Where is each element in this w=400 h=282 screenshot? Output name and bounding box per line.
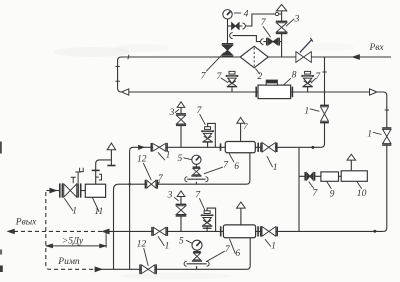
label 5 leader: [184, 158, 192, 160]
node: flow tick on right outlet riser: [385, 109, 389, 111]
label 7: [261, 17, 267, 28]
label 1 leader: [310, 109, 320, 112]
svg-text:>5Ду: >5Ду: [62, 236, 84, 246]
node: junction tick on inlet header: [127, 55, 130, 60]
wire: riser x=324.5 from inlet header to valve: [324, 57, 326, 105]
instrument box 10: [341, 171, 367, 182]
regulator 6 left flange: [220, 143, 222, 151]
node: junction dot middle line: [311, 146, 314, 149]
label 12: [137, 153, 147, 164]
decorative: [114, 44, 170, 52]
valve 1 (line 1 inlet): [151, 143, 167, 152]
svg-text:6: 6: [235, 248, 240, 259]
label 1: [72, 206, 77, 217]
wire: riser x=299 middle line down to lower line: [298, 147, 300, 231]
wire: relief valve 3 outlet riser to inlet header: [281, 34, 283, 57]
regulator 6 (line 2) body: [223, 225, 255, 238]
valve 7 on relief pilot line: [267, 38, 279, 46]
three-way cock 7 (line 2): [192, 252, 202, 261]
arrow: Pvyh line end: [8, 229, 14, 233]
wire: Rimp line solid part to riser up to lower regulator 6: [95, 238, 251, 269]
node: flow tick on bypass drop (upper): [115, 65, 120, 67]
svg-text:12: 12: [137, 239, 147, 250]
label 6 leader: [230, 239, 236, 254]
decorative: [306, 43, 354, 51]
node: junction dot sub-line/vertical: [128, 183, 130, 185]
dimension arrow left: [46, 244, 52, 248]
vent triangle on regulator 6 (line 2): [237, 202, 246, 208]
label 1 leader: [265, 239, 271, 246]
slam-shut valve 1 body: [60, 183, 81, 197]
label 6 leader: [229, 153, 234, 162]
gas meter 8 counter head: [266, 80, 277, 85]
regulator 6 right flange a: [257, 226, 259, 236]
label Pvyh: [15, 217, 37, 227]
label 7 leader (gauge drop valve): [206, 53, 224, 71]
regulator 6 right flange b: [260, 143, 262, 152]
pressure gauge PI 4: [223, 10, 232, 19]
label 9: [330, 188, 335, 199]
lever tick: [310, 38, 312, 42]
label 1 leader: [158, 236, 164, 246]
safety relief 7 (left of meter): [226, 71, 239, 92]
label 1 leader: [373, 132, 382, 134]
wire: corner from middle line up into riser x=324.5: [321, 123, 325, 148]
valve 12 (line 2 impulse): [140, 264, 156, 274]
svg-text:Рвх: Рвх: [369, 43, 385, 53]
svg-text:12: 12: [137, 153, 147, 164]
label 3 leader: [175, 109, 179, 112]
svg-text:11: 11: [94, 206, 103, 217]
instrument box 9: [321, 172, 339, 181]
label >5Du: [62, 236, 84, 246]
label 8: [292, 69, 297, 80]
label 10: [357, 188, 367, 199]
wire: right outlet riser x=386.8 below valve to bottom corner: [383, 145, 387, 231]
label 7: [313, 188, 319, 199]
vent triangle on box 10: [347, 154, 356, 160]
wire: slam-shut/pilot feed line y=190.5: [46, 190, 59, 192]
svg-text:3: 3: [169, 107, 175, 118]
label 7: [225, 244, 231, 255]
purge valve 3 (line 1): [176, 114, 186, 125]
wire: vent line cap bar: [107, 165, 115, 167]
label 7: [217, 71, 223, 82]
arrow: inlet flow Pvx: [353, 55, 360, 60]
label 3 leader: [174, 197, 179, 201]
wire: middle regulator line y=147.3 with left corner down: [130, 147, 321, 151]
cock of gauge 4: [232, 23, 240, 30]
label 7: [158, 173, 164, 184]
svg-text:6: 6: [234, 161, 239, 172]
arrow: flow on middle line: [139, 145, 144, 149]
wire: gauge 5 stem (line 2): [196, 250, 198, 269]
arrow: Pvyh outgoing: [103, 229, 110, 234]
label 10 leader: [357, 182, 362, 189]
svg-text:4: 4: [244, 8, 249, 19]
fitting circle on vent line: [275, 12, 278, 15]
label 7 leader: [221, 78, 229, 83]
wire: pilot 11 vent riser with curve to vent line: [96, 160, 112, 184]
gauge manifold bracket (line 2): [184, 261, 209, 266]
svg-text:5: 5: [179, 236, 184, 247]
regulator 6 right flange a: [257, 143, 259, 152]
label 7 leader (near valve 12): [156, 182, 160, 186]
label 7: [315, 71, 321, 82]
label 5 leader: [186, 240, 193, 243]
filter 2 diamond: [240, 46, 268, 68]
label 6: [235, 248, 240, 259]
wire: pilot vent riser union bar: [92, 169, 100, 171]
wire: branch y=176.3 to instruments 9/10: [299, 175, 341, 177]
valve 7 on instrument branch: [305, 172, 314, 181]
slam-shut pin with cap (short): [71, 177, 76, 183]
decorative: [0, 266, 3, 273]
label 3: [169, 107, 175, 118]
safety relief 7 (line 2): [201, 211, 214, 232]
label 11: [94, 206, 103, 217]
vent of purge valve 3 (line 2): [177, 191, 185, 197]
svg-text:1: 1: [367, 128, 372, 139]
gauge manifold bracket (line 1): [185, 177, 208, 182]
three-way cock 7 (line 1): [191, 167, 201, 176]
wire: inlet header y=57 from Pvx with rounded corner down at left: [118, 57, 391, 92]
svg-text:1: 1: [72, 206, 77, 217]
decorative: [0, 250, 2, 255]
valve 12 (line 1 impulse): [145, 180, 157, 189]
gas meter 8 body: [258, 85, 291, 99]
valve 1 on right outlet riser: [382, 128, 391, 145]
wire: vent line x=111.4 with end cap: [110, 150, 112, 166]
label 11 leader: [92, 198, 99, 212]
label 3 leader: [286, 19, 294, 27]
wire: vent stem above relief valve 3: [281, 11, 283, 21]
label 1: [271, 240, 276, 251]
gas meter 8 right flange: [291, 87, 293, 98]
dimension line >5Du: [46, 245, 106, 247]
pilot 11 body: [85, 184, 105, 197]
label 7 leader: [199, 198, 205, 210]
vent to atmosphere (pilot): [107, 143, 115, 150]
svg-text:8: 8: [292, 69, 297, 80]
label 9 leader: [327, 182, 332, 189]
gas meter 8 left flange: [255, 87, 257, 98]
gas meter 8 counter head cap: [267, 80, 277, 83]
svg-text:1: 1: [166, 149, 171, 160]
safety relief valve 3: [276, 21, 287, 33]
label 7 leader (pilot valve): [263, 26, 271, 37]
label 7: [195, 189, 201, 200]
label 7 (reg vent): [243, 121, 248, 131]
pressure gauge 5 (line 1): [192, 155, 201, 164]
node: flow tick on riser x=324.5: [322, 71, 326, 73]
svg-text:1: 1: [304, 106, 309, 117]
arrow: Rimp flow: [95, 267, 102, 272]
arrow: flow into slam-shut valve: [50, 188, 56, 192]
wire: relief 7 bracket on line 1: [208, 123, 216, 147]
regulator 6 right flange b: [260, 226, 262, 236]
label 5: [179, 236, 184, 247]
svg-text:Рвых: Рвых: [15, 217, 37, 227]
slam-shut pin with cap (tall): [75, 172, 80, 183]
label 1: [367, 128, 372, 139]
label 12 leader: [143, 163, 151, 180]
label 7 leader: [200, 114, 206, 125]
label 7: [223, 160, 229, 171]
wire: vent riser on box 10: [350, 160, 352, 171]
arrow: open arrow right on metering line: [370, 89, 377, 95]
label 2: [257, 71, 262, 82]
wire: pilot feed between valve and pilot: [81, 190, 86, 192]
wire: lower outlet line y=231.4 (solid part): [109, 230, 383, 232]
label 2 leader: [255, 69, 260, 75]
wire: relief 7 bracket on line 2: [207, 208, 216, 231]
decorative: [120, 273, 230, 280]
vent to atmosphere above relief 3: [276, 4, 286, 10]
svg-text:2: 2: [257, 71, 262, 82]
node: flow tick on bypass drop (lower): [115, 80, 120, 82]
decorative: [0, 142, 2, 154]
wire: gauge line to relief vent riser: [239, 14, 282, 26]
shut-off valve 7 on gauge drop: [222, 44, 233, 57]
main valve with lever: [296, 52, 311, 63]
wire: vent riser on regulator 6 (line 2): [240, 208, 242, 225]
fitting on relief pilot line (left): [230, 33, 233, 39]
svg-text:5: 5: [178, 153, 183, 164]
regulator 6 left flange: [220, 226, 222, 236]
label 1: [273, 162, 278, 173]
vent of purge valve 3 (line 1): [177, 102, 185, 108]
safety relief 7 (right of meter): [301, 71, 314, 92]
svg-text:1: 1: [165, 240, 170, 251]
label 1: [166, 149, 171, 160]
wire: purge valve 3 stems (line 2): [180, 196, 182, 231]
safety relief 7 (line 1): [201, 127, 214, 148]
label 3: [294, 13, 300, 24]
svg-text:10: 10: [357, 188, 367, 199]
wire: gauge drop line x=227.5: [227, 19, 229, 44]
label 1 leader: [64, 198, 73, 211]
label 1: [304, 106, 309, 117]
label 12 leader (line 2): [144, 248, 149, 266]
wire: pilot line of relief valve with jog: [233, 36, 282, 42]
svg-text:7: 7: [243, 121, 248, 131]
svg-text:Римп: Римп: [57, 257, 80, 267]
wire: gauge branch stub: [228, 25, 232, 27]
label 1: [165, 240, 170, 251]
svg-text:9: 9: [330, 188, 335, 199]
wire: impulse vertical x=113.5 curving into sub-line y=184.2: [114, 184, 119, 269]
label 7 leader (gauge cock): [204, 167, 223, 174]
valve 1 on riser x=324.5: [320, 105, 329, 122]
label 5: [178, 153, 183, 164]
wire: pilot impulse stub with end fitting: [96, 174, 102, 180]
label 7 leader (gauge cock): [206, 251, 225, 262]
label 1 leader: [267, 156, 273, 167]
node: junction dot lower line: [373, 230, 376, 233]
label Rimp: [57, 257, 80, 267]
valve 1 (line 2 inlet): [152, 227, 167, 236]
slam-shut fork: [80, 168, 84, 172]
label 6: [234, 161, 239, 172]
wire: metering line y=92 to right corner down: [121, 92, 387, 128]
label 7: [201, 71, 207, 82]
label 1 leader: [158, 152, 165, 160]
label 3: [167, 189, 173, 200]
label 7: [197, 105, 203, 116]
label 4: [244, 8, 249, 19]
label 12: [137, 239, 147, 250]
wire: vent riser on regulator 6 (line 1): [240, 123, 242, 141]
label 7 leader: [311, 78, 316, 83]
valve 1 (line 1 outlet): [262, 143, 277, 152]
label 8 leader: [284, 78, 291, 85]
wire: gauge 5 stem (line 1): [195, 164, 197, 184]
label Pvx: [369, 43, 385, 53]
wire: Pvyh dashed impulse line: [8, 230, 109, 232]
dimension arrow right: [100, 244, 106, 248]
wire: purge valve 3 stems (line 1): [180, 107, 182, 147]
wire: vertical x=129.6 joining middle line, impulse sub-line and bottom line: [129, 151, 131, 269]
lever handle: [300, 40, 312, 53]
svg-text:1: 1: [273, 162, 278, 173]
svg-text:3: 3: [167, 189, 173, 200]
arrow: open arrow left on metering line: [122, 89, 129, 95]
fitting on gauge line: [242, 23, 245, 29]
fitting on relief pilot line (right): [260, 39, 263, 45]
valve 1 (line 2 outlet): [262, 227, 277, 237]
filter 2 dashed axis: [253, 48, 255, 67]
regulator 6 (line 1) body: [225, 142, 255, 153]
label 4 leader: [234, 12, 241, 14]
vent triangle on regulator 6 (line 1): [237, 117, 245, 123]
wire: dashed impulse drop x=45.8 to Rimp corner: [46, 192, 95, 269]
pressure gauge 5 (line 2): [192, 240, 202, 250]
svg-text:3: 3: [294, 13, 300, 24]
decorative: [54, 47, 130, 57]
wire: impulse sub-line y=184.2 to riser up to regulator 6 bottom: [119, 153, 250, 184]
wire: dimension tick at impulse tap: [105, 231, 107, 248]
label 7 leader: [309, 182, 314, 189]
svg-text:1: 1: [271, 240, 276, 251]
purge valve 3 (line 2): [176, 204, 187, 216]
